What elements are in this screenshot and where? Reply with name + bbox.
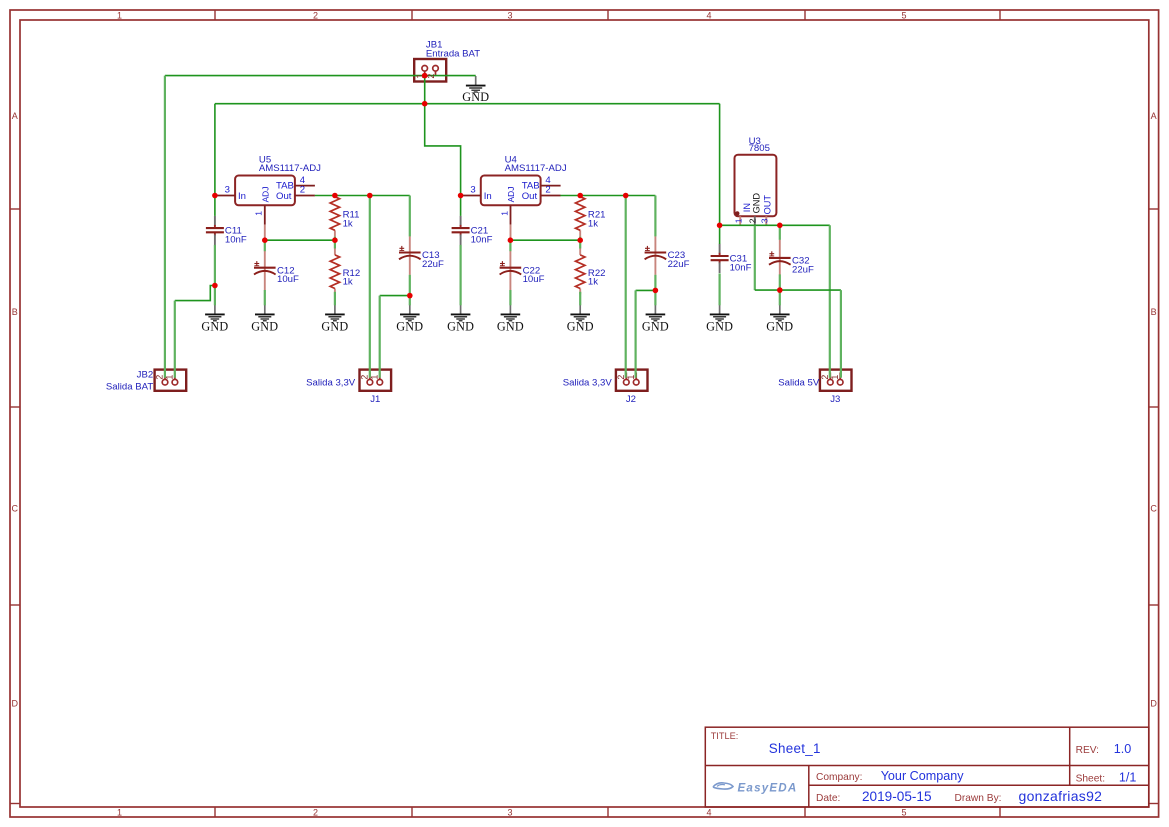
junction bbox=[262, 237, 268, 243]
junction bbox=[717, 223, 723, 229]
svg-text:10uF: 10uF bbox=[277, 274, 299, 285]
ground bbox=[201, 305, 228, 334]
ground bbox=[642, 305, 669, 334]
svg-text:Out: Out bbox=[522, 191, 538, 202]
resistor R21 bbox=[576, 197, 606, 237]
wire bbox=[334, 237, 336, 249]
wire bbox=[214, 245, 216, 305]
wire bbox=[719, 225, 721, 244]
svg-text:1: 1 bbox=[830, 375, 840, 380]
svg-text:GND: GND bbox=[567, 320, 594, 334]
wire bbox=[460, 196, 462, 216]
title block bbox=[705, 727, 1149, 807]
svg-text:GND: GND bbox=[396, 320, 423, 334]
svg-text:GND: GND bbox=[321, 320, 348, 334]
junction bbox=[653, 288, 659, 294]
junction bbox=[332, 193, 338, 199]
connector JB2 bbox=[155, 370, 187, 391]
svg-text:1k: 1k bbox=[588, 277, 598, 288]
junction bbox=[458, 193, 464, 199]
svg-text:J1: J1 bbox=[370, 394, 380, 405]
svg-text:1/1: 1/1 bbox=[1119, 771, 1137, 785]
wire bbox=[175, 286, 215, 301]
svg-text:J3: J3 bbox=[830, 394, 840, 405]
capacitor C22 bbox=[500, 251, 545, 290]
svg-text:GND: GND bbox=[447, 320, 474, 334]
svg-text:C: C bbox=[11, 504, 18, 514]
svg-text:Company:: Company: bbox=[816, 772, 862, 783]
regulator U3 bbox=[735, 136, 777, 226]
wire bbox=[425, 104, 461, 196]
svg-text:1: 1 bbox=[369, 375, 379, 380]
resistor R22 bbox=[576, 249, 606, 295]
wire bbox=[380, 295, 410, 297]
wire bbox=[718, 273, 720, 305]
svg-text:Salida BAT: Salida BAT bbox=[106, 381, 153, 392]
svg-text:GND: GND bbox=[642, 320, 669, 334]
svg-text:TITLE:: TITLE: bbox=[711, 731, 739, 741]
wire bbox=[840, 290, 842, 378]
svg-text:5: 5 bbox=[901, 10, 906, 20]
connector J1 bbox=[360, 370, 392, 391]
svg-text:A: A bbox=[12, 111, 18, 121]
wire bbox=[379, 296, 381, 378]
ground bbox=[396, 305, 423, 334]
junction bbox=[577, 237, 583, 243]
svg-text:1: 1 bbox=[117, 10, 122, 20]
junction bbox=[332, 237, 338, 243]
connector JB1 bbox=[414, 40, 480, 82]
wire bbox=[634, 290, 636, 377]
wire bbox=[755, 289, 841, 291]
svg-text:Out: Out bbox=[276, 191, 292, 202]
capacitor C32 bbox=[769, 240, 814, 276]
svg-text:4: 4 bbox=[706, 10, 711, 20]
svg-text:GND: GND bbox=[706, 320, 733, 334]
junction bbox=[212, 283, 218, 289]
svg-text:1k: 1k bbox=[343, 277, 353, 288]
svg-text:AMS1117-ADJ: AMS1117-ADJ bbox=[259, 163, 321, 174]
wire bbox=[264, 290, 266, 305]
svg-text:2: 2 bbox=[616, 375, 626, 380]
svg-text:1: 1 bbox=[499, 211, 509, 216]
wire bbox=[510, 239, 580, 241]
wire bbox=[215, 103, 720, 105]
wire bbox=[174, 301, 176, 378]
wire bbox=[579, 292, 581, 306]
junction bbox=[367, 193, 373, 199]
junction bbox=[422, 73, 428, 79]
svg-text:1.0: 1.0 bbox=[1114, 742, 1132, 756]
regulator U4 bbox=[461, 154, 567, 238]
svg-text:REV:: REV: bbox=[1076, 745, 1099, 756]
svg-text:22uF: 22uF bbox=[792, 264, 814, 275]
svg-text:10uF: 10uF bbox=[523, 274, 545, 285]
wire bbox=[424, 76, 426, 104]
ground bbox=[706, 305, 733, 334]
wire bbox=[264, 238, 266, 251]
wire bbox=[164, 76, 166, 378]
svg-text:GND: GND bbox=[462, 90, 489, 104]
svg-text:3: 3 bbox=[470, 185, 475, 196]
svg-text:Date:: Date: bbox=[816, 793, 840, 804]
svg-text:GND: GND bbox=[201, 320, 228, 334]
svg-text:Salida 3,3V: Salida 3,3V bbox=[563, 377, 613, 388]
ground bbox=[766, 305, 793, 334]
svg-text:2: 2 bbox=[820, 375, 830, 380]
connector J2 bbox=[616, 370, 648, 391]
wire bbox=[625, 196, 627, 378]
wire bbox=[579, 237, 581, 249]
wire bbox=[509, 290, 511, 305]
wire bbox=[409, 275, 411, 306]
wire bbox=[334, 292, 336, 306]
svg-text:Entrada BAT: Entrada BAT bbox=[426, 48, 480, 59]
svg-text:22uF: 22uF bbox=[422, 259, 444, 270]
svg-text:1k: 1k bbox=[343, 218, 353, 229]
svg-text:2: 2 bbox=[313, 807, 318, 817]
svg-text:Sheet_1: Sheet_1 bbox=[769, 741, 821, 756]
svg-text:4: 4 bbox=[706, 807, 711, 817]
svg-text:GND: GND bbox=[766, 320, 793, 334]
svg-text:10nF: 10nF bbox=[471, 234, 493, 245]
junction bbox=[422, 101, 428, 107]
capacitor C12 bbox=[254, 251, 299, 290]
wire bbox=[719, 104, 721, 226]
svg-text:GND: GND bbox=[752, 193, 762, 214]
svg-text:D: D bbox=[11, 699, 18, 709]
svg-text:3: 3 bbox=[759, 218, 769, 223]
resistor R11 bbox=[330, 197, 359, 237]
svg-text:Salida 3,3V: Salida 3,3V bbox=[306, 377, 356, 388]
wire bbox=[214, 196, 216, 216]
wire bbox=[720, 224, 830, 226]
svg-text:10nF: 10nF bbox=[225, 234, 247, 245]
wire bbox=[636, 289, 656, 291]
svg-text:1: 1 bbox=[254, 211, 264, 216]
svg-text:2019-05-15: 2019-05-15 bbox=[862, 789, 932, 804]
svg-text:ADJ: ADJ bbox=[506, 187, 516, 203]
wire bbox=[369, 196, 371, 378]
svg-text:IN: IN bbox=[742, 203, 752, 212]
wire bbox=[829, 225, 831, 377]
wire bbox=[214, 104, 216, 196]
svg-text:J2: J2 bbox=[626, 394, 636, 405]
svg-text:GND: GND bbox=[251, 320, 278, 334]
svg-text:10nF: 10nF bbox=[730, 262, 752, 273]
wire bbox=[779, 225, 781, 240]
junction bbox=[777, 223, 783, 229]
svg-text:B: B bbox=[1151, 307, 1157, 317]
svg-text:GND: GND bbox=[497, 320, 524, 334]
resistor R12 bbox=[330, 249, 360, 295]
svg-text:2: 2 bbox=[360, 375, 370, 380]
ground bbox=[251, 305, 278, 334]
svg-text:3: 3 bbox=[507, 807, 512, 817]
ground bbox=[497, 305, 524, 334]
junction bbox=[407, 293, 413, 299]
connector J3 bbox=[820, 370, 852, 391]
capacitor C11 bbox=[206, 216, 247, 246]
svg-text:2: 2 bbox=[155, 375, 165, 380]
regulator U5 bbox=[215, 154, 321, 238]
svg-text:JB2: JB2 bbox=[137, 369, 154, 380]
svg-text:1: 1 bbox=[117, 807, 122, 817]
svg-text:7805: 7805 bbox=[749, 143, 770, 154]
svg-text:Your Company: Your Company bbox=[881, 769, 965, 783]
wire bbox=[754, 226, 756, 291]
svg-text:Salida 5V: Salida 5V bbox=[778, 377, 820, 388]
junction bbox=[508, 237, 514, 243]
wire bbox=[265, 239, 335, 241]
wire bbox=[509, 238, 511, 251]
junction bbox=[777, 287, 783, 293]
svg-text:EasyEDA: EasyEDA bbox=[738, 782, 798, 795]
svg-text:B: B bbox=[12, 307, 18, 317]
junction bbox=[212, 193, 218, 199]
svg-text:D: D bbox=[1150, 699, 1157, 709]
svg-text:1: 1 bbox=[165, 375, 175, 380]
junction bbox=[623, 193, 629, 199]
svg-text:Sheet:: Sheet: bbox=[1076, 774, 1105, 785]
ground bbox=[462, 76, 489, 104]
wire bbox=[654, 196, 656, 237]
svg-text:3: 3 bbox=[225, 185, 230, 196]
svg-text:1: 1 bbox=[734, 218, 744, 223]
svg-text:2: 2 bbox=[300, 185, 305, 196]
svg-text:C: C bbox=[1150, 504, 1157, 514]
ground bbox=[321, 305, 348, 334]
svg-text:1k: 1k bbox=[588, 218, 598, 229]
ground bbox=[567, 305, 594, 334]
wire bbox=[779, 274, 781, 305]
wire bbox=[460, 245, 462, 305]
wire bbox=[654, 275, 656, 306]
capacitor C31 bbox=[711, 244, 752, 273]
capacitor C21 bbox=[452, 216, 493, 246]
junction bbox=[577, 193, 583, 199]
capacitor C23 bbox=[645, 236, 690, 275]
svg-text:5: 5 bbox=[901, 807, 906, 817]
svg-text:AMS1117-ADJ: AMS1117-ADJ bbox=[505, 163, 567, 174]
svg-text:ADJ: ADJ bbox=[260, 187, 270, 203]
svg-text:2: 2 bbox=[313, 10, 318, 20]
svg-text:Drawn By:: Drawn By: bbox=[955, 793, 1002, 804]
capacitor C13 bbox=[399, 236, 444, 275]
wire bbox=[409, 196, 411, 237]
svg-text:2: 2 bbox=[545, 185, 550, 196]
svg-text:1: 1 bbox=[626, 375, 636, 380]
svg-text:In: In bbox=[238, 191, 246, 202]
svg-text:OUT: OUT bbox=[762, 195, 772, 215]
wire bbox=[560, 195, 655, 197]
svg-text:2: 2 bbox=[426, 74, 436, 79]
wire bbox=[165, 75, 476, 77]
wire bbox=[315, 195, 410, 197]
svg-text:22uF: 22uF bbox=[668, 259, 690, 270]
ground bbox=[447, 305, 474, 334]
svg-text:A: A bbox=[1151, 111, 1157, 121]
svg-text:In: In bbox=[484, 191, 492, 202]
svg-text:2: 2 bbox=[747, 218, 757, 223]
svg-text:3: 3 bbox=[507, 10, 512, 20]
svg-text:gonzafrias92: gonzafrias92 bbox=[1019, 788, 1103, 804]
